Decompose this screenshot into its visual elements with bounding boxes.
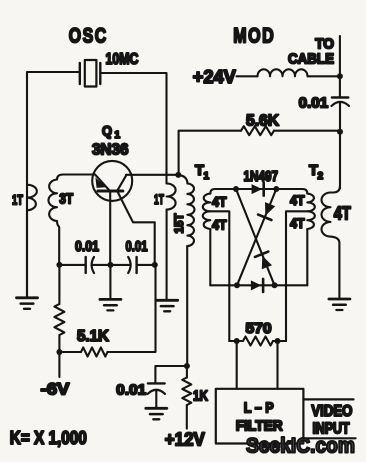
svg-text:1T: 1T (12, 192, 23, 208)
node (107, 262, 113, 268)
resistor R 5.1K (81, 348, 108, 357)
svg-text:+12V: +12V (165, 430, 205, 450)
Q1 emitter-bypass lead (117, 191, 155, 265)
svg-text:OSC: OSC (69, 25, 108, 48)
wire (100, 73, 166, 184)
wire (229, 340, 243, 342)
wire (155, 366, 187, 383)
svg-text:Q: Q (102, 123, 112, 139)
capacitor C 0.01 (cable coupling) (332, 96, 348, 98)
svg-text:VIDEO: VIDEO (311, 403, 352, 420)
wire (59, 351, 81, 353)
node (337, 73, 343, 79)
wire ring bottom rail (210, 284, 307, 286)
ground (329, 298, 350, 301)
wire (155, 390, 157, 408)
wire (59, 264, 85, 266)
wire (92, 264, 131, 266)
wire (186, 366, 188, 378)
transistor Q1 3N36 circle (92, 161, 132, 201)
wire (236, 341, 238, 389)
wire (237, 75, 258, 77)
T2 center tap (286, 211, 307, 341)
svg-text:FILTER: FILTER (236, 418, 283, 435)
crystal Y1 10MC (79, 63, 81, 84)
wire 5.6K riser (179, 131, 241, 175)
ground (146, 407, 167, 410)
wire ring top rail (236, 188, 276, 190)
svg-text:+24V: +24V (193, 66, 237, 87)
Q1 base bar (98, 190, 123, 193)
Q1 emitter line (95, 175, 110, 191)
svg-text:CABLE: CABLE (288, 51, 334, 68)
svg-text:10MC: 10MC (106, 51, 139, 68)
wire (137, 264, 155, 266)
diode D2 1N497 (251, 280, 262, 290)
resistor (emitter) (54, 304, 64, 335)
inductor RFC (258, 69, 308, 76)
svg-text:SeekIC.com: SeekIC.com (246, 434, 355, 458)
svg-text:1: 1 (115, 130, 121, 141)
svg-text:K= X 1,000: K= X 1,000 (10, 428, 87, 448)
ground (100, 298, 121, 301)
capacitor C1 0.01 (84, 257, 86, 273)
svg-text:2: 2 (318, 171, 324, 182)
svg-text:-6V: -6V (41, 380, 71, 399)
wire (273, 340, 286, 342)
wire (166, 210, 168, 300)
ground (17, 296, 38, 299)
node (275, 338, 281, 344)
node C (234, 282, 240, 288)
svg-text:0.01: 0.01 (299, 95, 329, 112)
inductor 1T (feedback winding) (167, 184, 176, 210)
svg-text:3N36: 3N36 (92, 142, 129, 159)
node B (273, 186, 279, 192)
inductor 1T (left rail winding) (27, 185, 37, 211)
svg-text:1N497: 1N497 (244, 168, 279, 185)
svg-text:0.01: 0.01 (116, 382, 146, 399)
node (184, 363, 190, 369)
svg-text:3T: 3T (59, 190, 73, 207)
svg-text:4T: 4T (334, 204, 351, 224)
node (56, 349, 62, 355)
wire diagonal (236, 189, 275, 285)
capacitor C 0.01 (148, 382, 165, 384)
wire video input top (303, 398, 353, 400)
wire (274, 130, 340, 132)
node collector junction (175, 172, 181, 178)
node D (272, 282, 278, 288)
diode D1 1N497 (252, 184, 263, 194)
svg-text:15T: 15T (172, 213, 186, 234)
svg-text:4T: 4T (212, 194, 227, 210)
wire collector (126, 174, 178, 176)
wire output rail (339, 36, 341, 97)
wire (108, 265, 156, 352)
svg-text:1K: 1K (193, 388, 208, 405)
svg-text:0.01: 0.01 (126, 238, 148, 255)
resistor R 570 (243, 337, 273, 346)
transformer T2 primary 4T-4T (276, 189, 307, 194)
Q1 emitter arrow (95, 178, 106, 188)
diode D4 1N497 (265, 202, 275, 216)
node (152, 262, 158, 268)
wire (339, 102, 341, 188)
node (337, 129, 343, 135)
svg-text:L – P: L – P (244, 399, 274, 416)
svg-text:4T: 4T (290, 215, 305, 231)
node (234, 338, 240, 344)
transformer T2 secondary 4T (331, 186, 340, 193)
svg-text:5.1K: 5.1K (77, 328, 109, 345)
block L-P FILTER (216, 389, 304, 444)
T1 center tap (210, 211, 229, 341)
transformer T1 secondary 4T-4T (210, 189, 236, 194)
Q1 base lead (109, 191, 111, 265)
wire (58, 265, 60, 304)
wire diagonal (237, 189, 276, 285)
capacitor C2 0.01 (128, 257, 130, 273)
diode D3 1N497 (262, 256, 272, 270)
wire (58, 335, 60, 377)
wire (186, 405, 188, 429)
node A (233, 186, 239, 192)
Q1 collector line (117, 175, 126, 191)
svg-text:MOD: MOD (233, 25, 275, 48)
resistor R 5.6K (241, 126, 274, 135)
ground (157, 299, 178, 302)
svg-text:0.01: 0.01 (75, 238, 99, 255)
svg-text:4T: 4T (290, 192, 305, 208)
wire (26, 210, 28, 297)
svg-text:5.6K: 5.6K (246, 113, 279, 130)
inductor 3T (57, 175, 93, 180)
wire (109, 265, 111, 298)
wire (186, 246, 188, 366)
inductor 15T (178, 175, 187, 184)
svg-text:570: 570 (246, 320, 272, 337)
resistor R 1K (182, 378, 191, 406)
svg-text:1T: 1T (154, 191, 164, 207)
wire video input bottom (307, 437, 356, 439)
wire (308, 75, 340, 77)
svg-text:1: 1 (204, 171, 210, 182)
wire (27, 72, 79, 297)
node (56, 262, 62, 268)
wire (276, 341, 278, 389)
svg-text:4T: 4T (212, 217, 227, 233)
